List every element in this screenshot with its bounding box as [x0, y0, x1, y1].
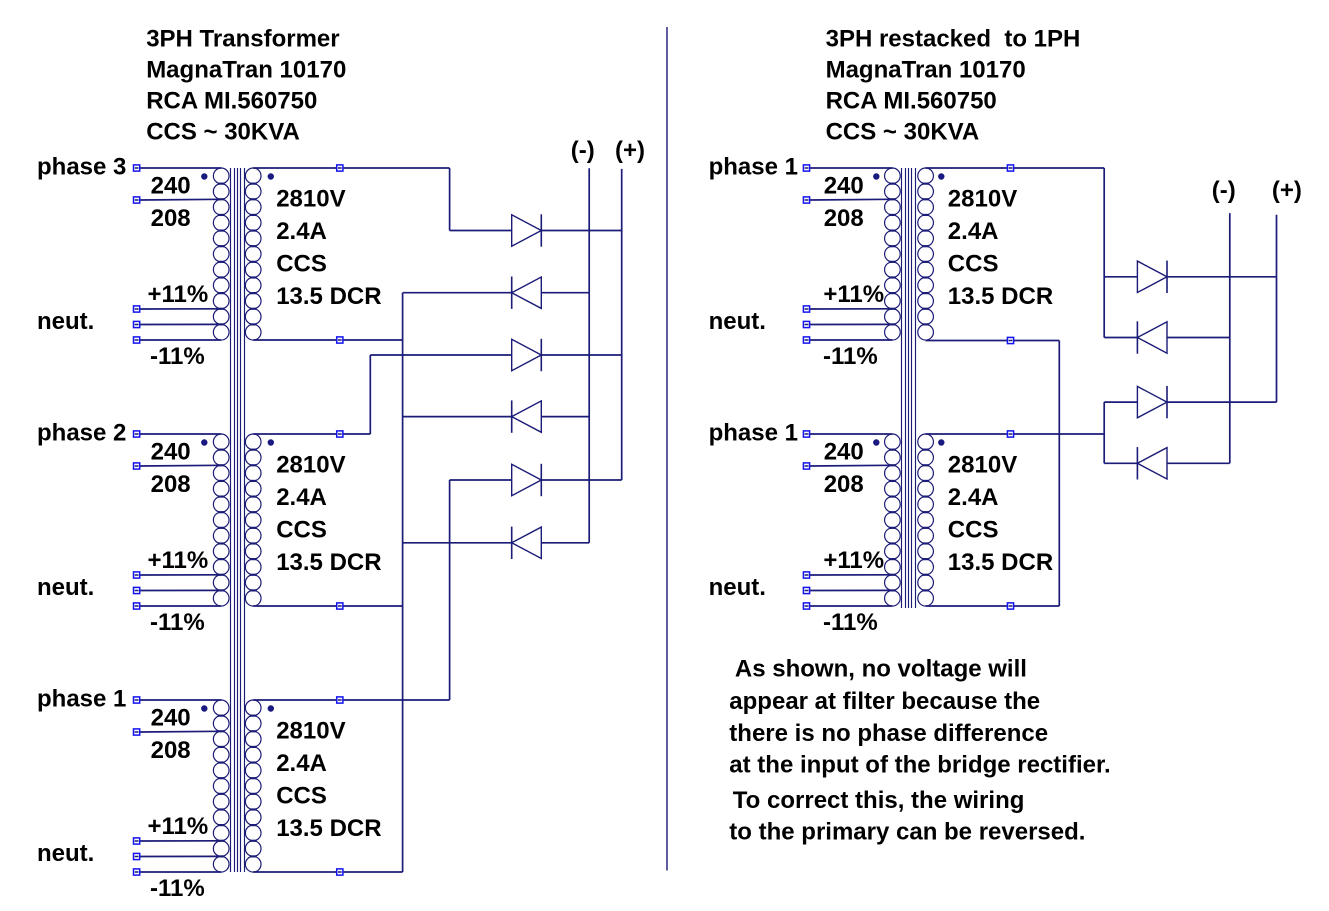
- terminal square RT2 neut: [803, 587, 809, 593]
- wire into D4: [403, 416, 512, 418]
- wire DR3 to (+) bus: [1167, 401, 1277, 403]
- separator line: [666, 27, 668, 871]
- wire T2 primary tap neut: [140, 589, 221, 591]
- wire into DR4: [1104, 462, 1137, 464]
- svg-text:240: 240: [151, 439, 191, 466]
- svg-text:208: 208: [151, 205, 191, 232]
- svg-text:-11%: -11%: [150, 343, 205, 370]
- terminal square RT1 -11%: [803, 337, 809, 343]
- svg-text:CCS: CCS: [948, 517, 999, 544]
- wire RT2 primary bottom -11%: [810, 605, 893, 607]
- svg-text:+11%: +11%: [823, 281, 884, 308]
- wire RW1 secondary top: [926, 167, 1105, 169]
- terminal square RT2 208: [803, 463, 809, 469]
- wire DR2 to (-) bus: [1167, 337, 1230, 339]
- svg-text:appear at filter because the: appear at filter because the: [729, 688, 1040, 715]
- wire T1 primary top (phase): [140, 167, 221, 169]
- wire T3 primary top (phase): [140, 699, 221, 701]
- svg-text:(-): (-): [571, 137, 595, 164]
- diode D2: [512, 277, 542, 309]
- terminal square RT1 208: [803, 197, 809, 203]
- svg-text:2810V: 2810V: [948, 186, 1017, 213]
- svg-text:13.5 DCR: 13.5 DCR: [276, 815, 381, 842]
- svg-text:CCS: CCS: [276, 251, 327, 278]
- svg-text:neut.: neut.: [37, 840, 94, 867]
- svg-text:+11%: +11%: [823, 547, 884, 574]
- polarity dot T1 primary: [201, 173, 207, 179]
- primary winding T3 (left): [213, 700, 229, 872]
- wire W3 secondary bottom: [253, 871, 402, 873]
- diode D4: [512, 400, 542, 432]
- wire W2 secondary top: [253, 433, 370, 435]
- svg-text:2810V: 2810V: [276, 718, 345, 745]
- terminal square T2 phase: [134, 431, 140, 437]
- svg-text:240: 240: [824, 173, 864, 200]
- svg-text:2.4A: 2.4A: [276, 750, 327, 777]
- wire D3 to (+) bus: [541, 354, 621, 356]
- terminal square W1 sec bottom: [337, 337, 343, 343]
- svg-text:neut.: neut.: [709, 308, 766, 335]
- secondary winding T1 (left): [245, 168, 261, 340]
- diode D6: [512, 527, 542, 559]
- polarity dot T2 secondary: [268, 439, 274, 445]
- svg-text:3PH restacked to 1PH: 3PH restacked to 1PH: [826, 25, 1081, 52]
- terminal square W1 sec top: [337, 165, 343, 171]
- svg-text:208: 208: [151, 737, 191, 764]
- wire W1 secondary top: [253, 167, 449, 169]
- svg-text:neut.: neut.: [37, 308, 94, 335]
- terminal square RT2 -11%: [803, 603, 809, 609]
- wire T1 primary tap +11%: [140, 308, 221, 310]
- wire RT2 primary tap neut: [810, 589, 893, 591]
- wire into D1: [450, 230, 512, 232]
- wire RT2 primary tap 208: [810, 464, 893, 467]
- wire RT2 primary tap +11%: [810, 574, 893, 576]
- svg-text:CCS: CCS: [276, 783, 327, 810]
- wire W2 top jog vertical: [369, 355, 371, 434]
- wire DR4 to (-) bus: [1167, 462, 1230, 464]
- svg-text:there is no phase difference: there is no phase difference: [729, 720, 1048, 747]
- svg-text:RCA MI.560750: RCA MI.560750: [826, 88, 997, 115]
- wire RW1 secondary bottom: [926, 340, 1060, 342]
- right transformer core: [902, 168, 916, 608]
- svg-text:-11%: -11%: [150, 875, 205, 902]
- svg-text:2810V: 2810V: [276, 186, 345, 213]
- wire RW2 secondary top: [926, 433, 1105, 435]
- svg-text:phase 1: phase 1: [709, 420, 798, 447]
- svg-text:CCS ~ 30KVA: CCS ~ 30KVA: [826, 119, 980, 146]
- wire RT1 primary tap +11%: [810, 308, 893, 310]
- svg-text:3PH Transformer: 3PH Transformer: [146, 25, 339, 52]
- wire T3 primary bottom -11%: [140, 871, 221, 873]
- wire DR1 to (+) bus: [1167, 276, 1277, 278]
- svg-text:to the primary can be reversed: to the primary can be reversed.: [729, 819, 1085, 846]
- svg-text:CCS: CCS: [276, 517, 327, 544]
- secondary winding RT2 (right): [918, 434, 934, 606]
- wire into D2: [403, 292, 512, 294]
- terminal square T3 -11%: [134, 869, 140, 875]
- primary winding RT1 (right): [885, 168, 901, 340]
- secondary winding T3 (left): [245, 700, 261, 872]
- svg-text:To correct this, the wiring: To correct this, the wiring: [733, 787, 1025, 814]
- diode DR4: [1137, 447, 1167, 479]
- svg-text:CCS: CCS: [948, 251, 999, 278]
- wire into DR3: [1104, 401, 1137, 403]
- svg-text:phase 1: phase 1: [709, 154, 798, 181]
- svg-text:+11%: +11%: [148, 813, 209, 840]
- wire into D5: [450, 479, 512, 481]
- svg-text:-11%: -11%: [150, 609, 205, 636]
- wire RT1 primary bottom -11%: [810, 339, 893, 341]
- wire D5 to W3 top vertical: [449, 480, 451, 700]
- polarity dot RT1 primary: [873, 173, 879, 179]
- terminal square T3 neut: [134, 853, 140, 859]
- wire D6 to (-) bus: [541, 542, 589, 544]
- terminal square RT1 neut: [803, 321, 809, 327]
- terminal square T1 neut: [134, 321, 140, 327]
- (+) bus left: [621, 169, 623, 480]
- wire W1 secondary bottom: [253, 339, 402, 341]
- terminal square T2 neut: [134, 587, 140, 593]
- svg-text:2810V: 2810V: [276, 452, 345, 479]
- svg-text:208: 208: [824, 471, 864, 498]
- svg-text:As shown, no voltage will: As shown, no voltage will: [735, 656, 1027, 683]
- svg-text:CCS ~ 30KVA: CCS ~ 30KVA: [146, 119, 300, 146]
- wire T2 primary tap 208: [140, 464, 221, 467]
- terminal square RT1 phase: [803, 165, 809, 171]
- polarity dot RT2 secondary: [938, 439, 944, 445]
- wire T3 primary tap +11%: [140, 840, 221, 842]
- wire RT1 primary top (phase): [810, 167, 893, 169]
- terminal square T2 208: [134, 463, 140, 469]
- secondary winding T2 (left): [245, 434, 261, 606]
- vertical RW2 top to DR3/DR4: [1103, 402, 1105, 463]
- wire T3 primary tap 208: [140, 730, 221, 733]
- terminal square T3 phase: [134, 697, 140, 703]
- svg-text:2.4A: 2.4A: [276, 484, 327, 511]
- wire into DR2: [1104, 337, 1137, 339]
- svg-text:13.5 DCR: 13.5 DCR: [276, 283, 381, 310]
- diode DR3: [1137, 386, 1167, 418]
- wire D4 to (-) bus: [541, 416, 589, 418]
- wire W3 secondary top: [253, 699, 449, 701]
- svg-text:240: 240: [151, 173, 191, 200]
- wire W2 secondary bottom: [253, 605, 402, 607]
- terminal square RW1 sec bottom: [1007, 337, 1013, 343]
- terminal square T1 -11%: [134, 337, 140, 343]
- primary winding T2 (left): [213, 434, 229, 606]
- polarity dot RT1 secondary: [938, 173, 944, 179]
- (-) bus left: [588, 168, 590, 543]
- svg-text:13.5 DCR: 13.5 DCR: [948, 283, 1053, 310]
- svg-text:-11%: -11%: [823, 343, 878, 370]
- wire into DR1: [1104, 276, 1137, 278]
- svg-text:(+): (+): [615, 137, 645, 164]
- wire T2 primary bottom -11%: [140, 605, 221, 607]
- vertical joining winding bottoms: [1058, 341, 1060, 607]
- wire W1 top to D1 vertical: [449, 168, 451, 231]
- terminal square T1 phase: [134, 165, 140, 171]
- secondary winding RT1 (right): [918, 168, 934, 340]
- svg-text:240: 240: [824, 439, 864, 466]
- terminal square T3 208: [134, 729, 140, 735]
- svg-text:208: 208: [151, 471, 191, 498]
- terminal square T2 -11%: [134, 603, 140, 609]
- common vertical V1: [402, 293, 404, 872]
- svg-text:phase 3: phase 3: [37, 154, 126, 181]
- wire T2 primary top (phase): [140, 433, 221, 435]
- svg-text:13.5 DCR: 13.5 DCR: [276, 549, 381, 576]
- svg-text:2.4A: 2.4A: [948, 484, 999, 511]
- wire T1 primary bottom -11%: [140, 339, 221, 341]
- polarity dot RT2 primary: [873, 439, 879, 445]
- svg-text:+11%: +11%: [148, 281, 209, 308]
- svg-text:at the input of the bridge rec: at the input of the bridge rectifier.: [729, 752, 1110, 779]
- svg-text:2.4A: 2.4A: [276, 218, 327, 245]
- diode D1: [512, 214, 542, 246]
- wire T3 primary tap neut: [140, 855, 221, 857]
- svg-text:neut.: neut.: [37, 574, 94, 601]
- wire T1 primary tap neut: [140, 323, 221, 325]
- svg-text:240: 240: [151, 705, 191, 732]
- (-) bus right: [1229, 213, 1231, 463]
- terminal square RW1 sec top: [1007, 165, 1013, 171]
- svg-text:2810V: 2810V: [948, 452, 1017, 479]
- svg-text:208: 208: [824, 205, 864, 232]
- terminal square T3 +11%: [134, 838, 140, 844]
- wire D2 to (-) bus: [541, 292, 589, 294]
- wire into D3: [370, 354, 511, 356]
- primary winding RT2 (right): [885, 434, 901, 606]
- wire T1 primary tap 208: [140, 198, 221, 201]
- diode D3: [512, 339, 542, 371]
- svg-text:phase 1: phase 1: [37, 686, 126, 713]
- left transformer core: [231, 168, 245, 872]
- terminal square T1 +11%: [134, 306, 140, 312]
- svg-text:13.5 DCR: 13.5 DCR: [948, 549, 1053, 576]
- svg-text:RCA MI.560750: RCA MI.560750: [146, 88, 317, 115]
- diode DR1: [1137, 261, 1167, 293]
- polarity dot T3 secondary: [268, 705, 274, 711]
- polarity dot T2 primary: [201, 439, 207, 445]
- terminal square W3 sec bottom: [337, 869, 343, 875]
- svg-text:(+): (+): [1272, 177, 1302, 204]
- svg-text:2.4A: 2.4A: [948, 218, 999, 245]
- wire into D6: [403, 542, 512, 544]
- vertical RW1 top to DR1/DR2: [1103, 168, 1105, 338]
- terminal square RT2 +11%: [803, 572, 809, 578]
- wire D1 to (+) bus: [541, 230, 621, 232]
- wire D5 to (+) bus: [541, 479, 621, 481]
- svg-text:+11%: +11%: [148, 547, 209, 574]
- polarity dot T1 secondary: [268, 173, 274, 179]
- terminal square RW2 sec bottom: [1007, 603, 1013, 609]
- terminal square T2 +11%: [134, 572, 140, 578]
- wire RT1 primary tap neut: [810, 323, 893, 325]
- terminal square RW2 sec top: [1007, 431, 1013, 437]
- terminal square RT1 +11%: [803, 306, 809, 312]
- svg-text:MagnaTran 10170: MagnaTran 10170: [826, 56, 1026, 83]
- terminal square W3 sec top: [337, 697, 343, 703]
- svg-text:phase 2: phase 2: [37, 420, 126, 447]
- svg-text:MagnaTran 10170: MagnaTran 10170: [146, 56, 346, 83]
- svg-text:neut.: neut.: [709, 574, 766, 601]
- diode D5: [512, 464, 542, 496]
- wire RT1 primary tap 208: [810, 198, 893, 201]
- terminal square RT2 phase: [803, 431, 809, 437]
- wire RW2 secondary bottom: [926, 605, 1060, 607]
- polarity dot T3 primary: [201, 705, 207, 711]
- diode DR2: [1137, 321, 1167, 353]
- terminal square T1 208: [134, 197, 140, 203]
- svg-text:-11%: -11%: [823, 609, 878, 636]
- svg-text:(-): (-): [1212, 177, 1236, 204]
- terminal square W2 sec bottom: [337, 603, 343, 609]
- wire T2 primary tap +11%: [140, 574, 221, 576]
- terminal square W2 sec top: [337, 431, 343, 437]
- wire RT2 primary top (phase): [810, 433, 893, 435]
- primary winding T1 (left): [213, 168, 229, 340]
- (+) bus right: [1276, 215, 1278, 402]
